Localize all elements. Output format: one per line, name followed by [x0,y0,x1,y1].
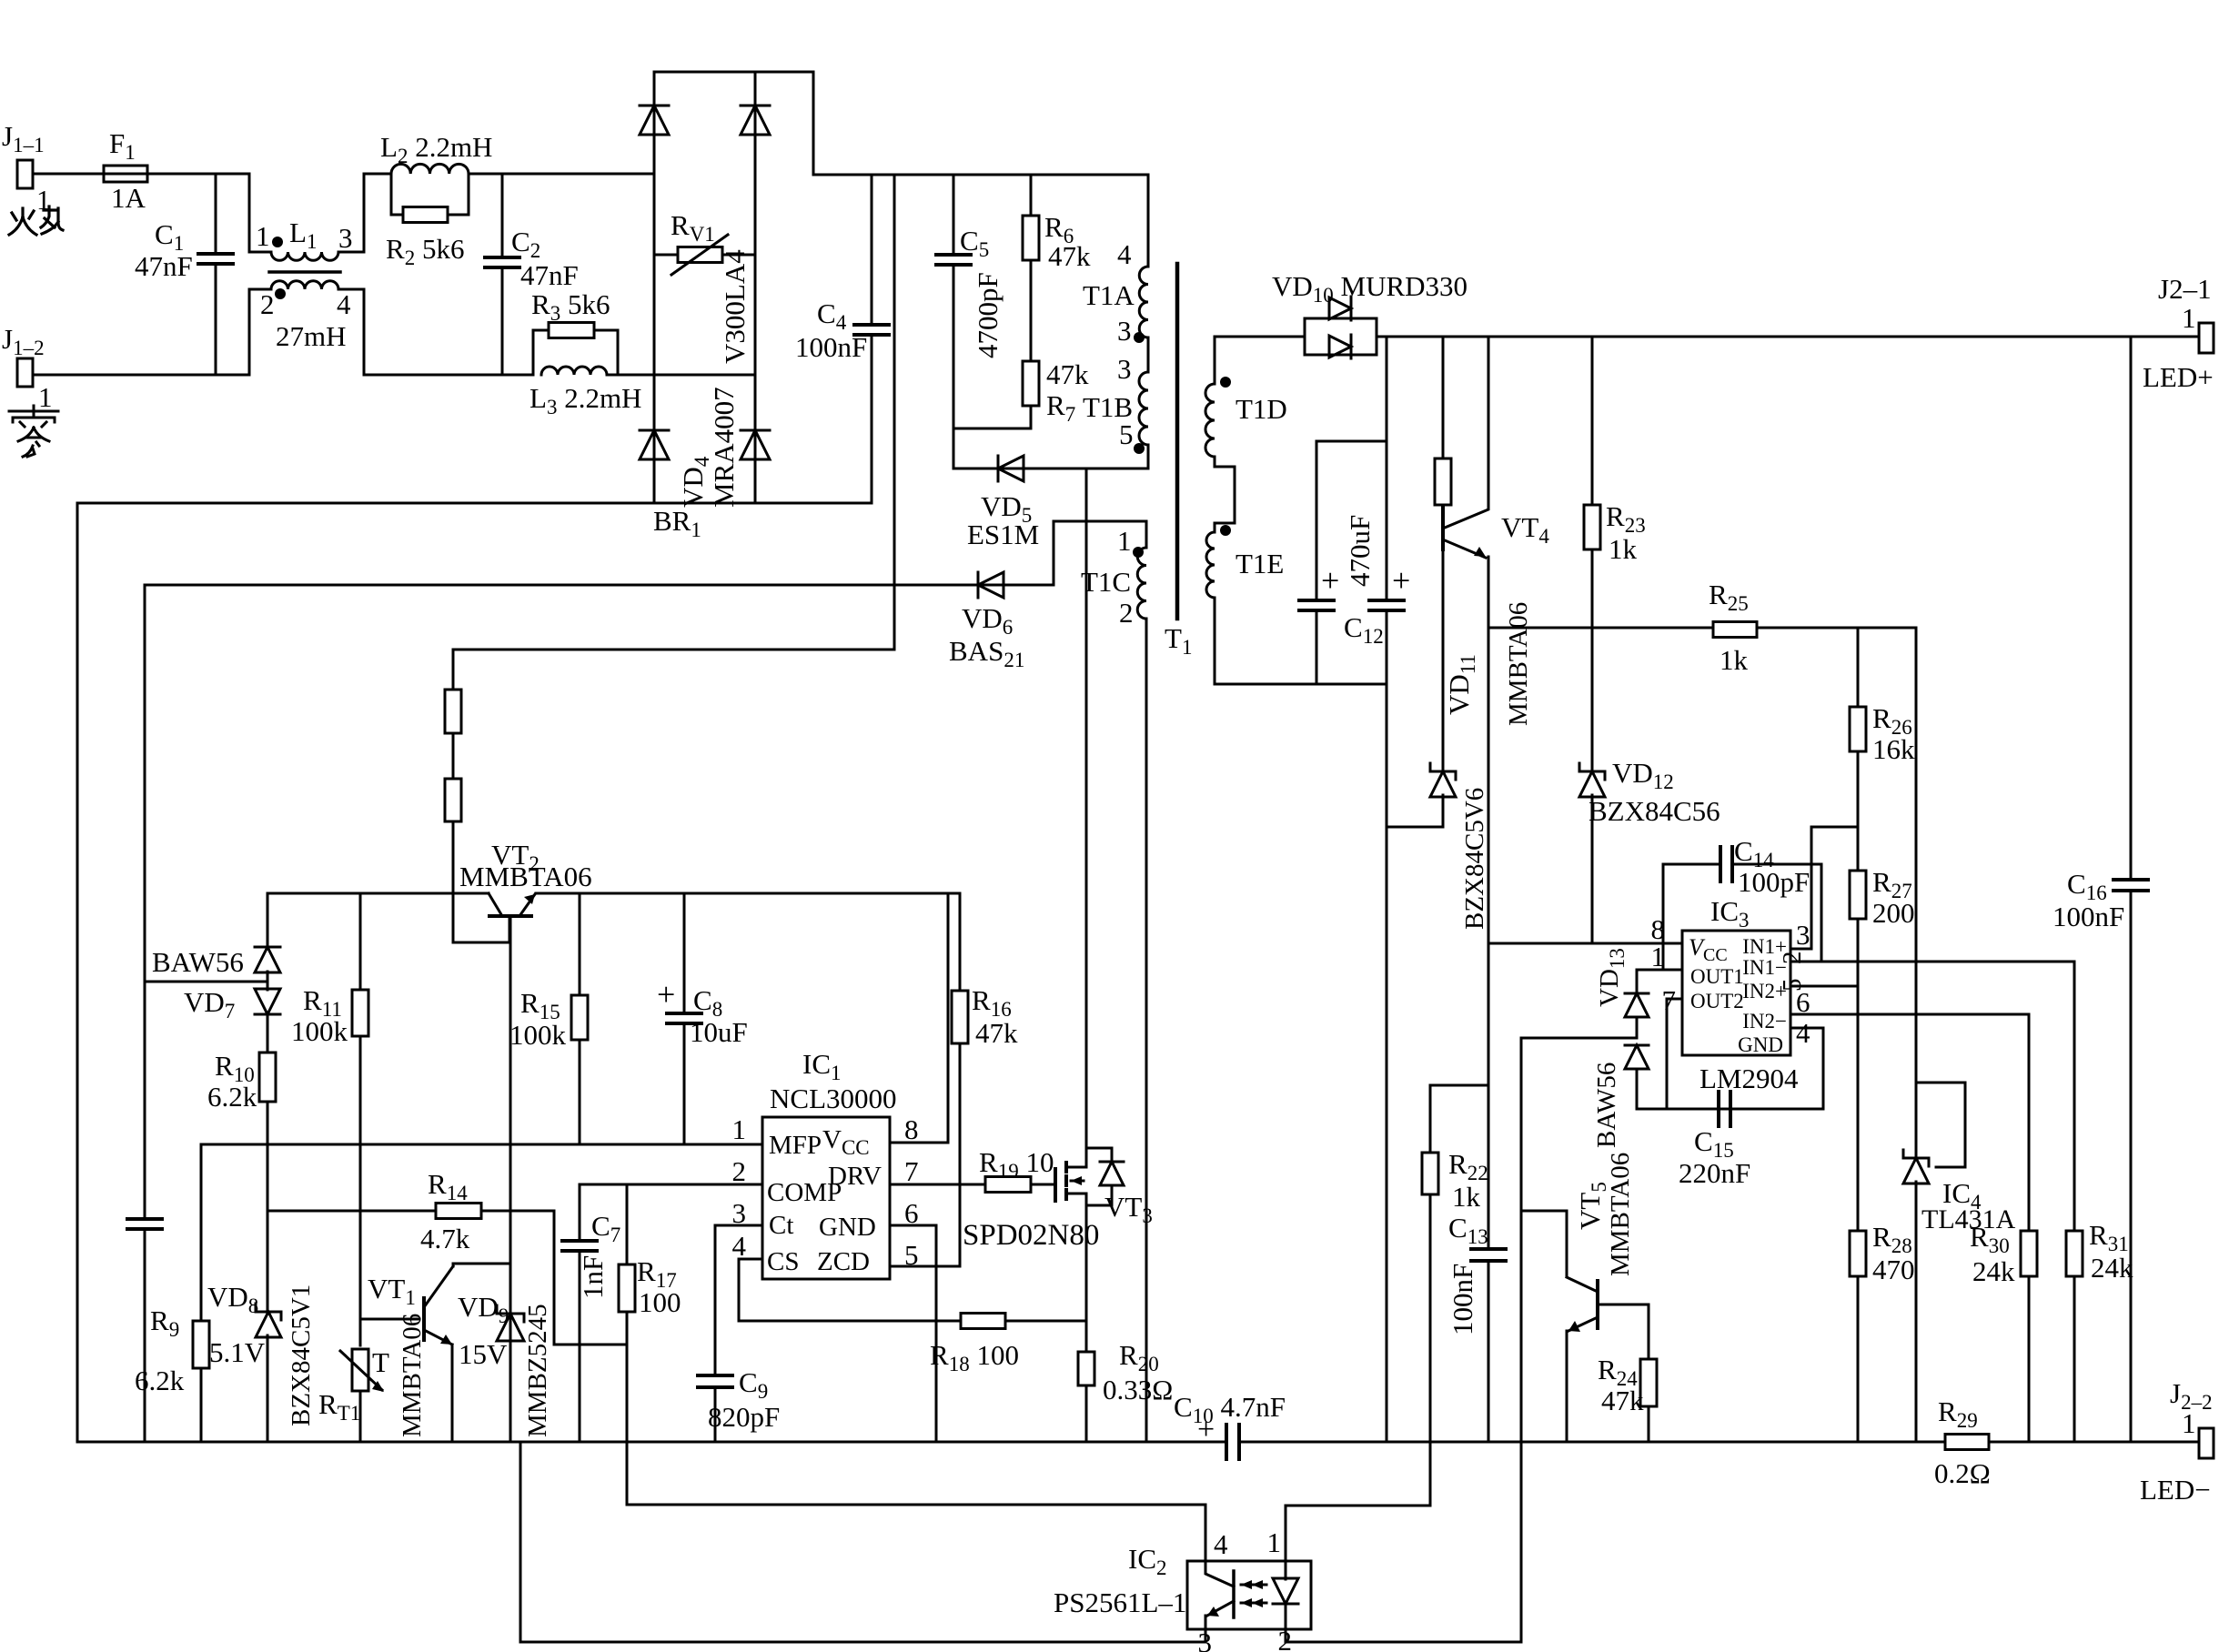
svg-text:MMBTA06: MMBTA06 [1504,602,1533,726]
connector J2-2 LED- [2199,1428,2214,1458]
svg-text:TL431A: TL431A [1921,1204,2016,1234]
svg-text:C10 4.7nF: C10 4.7nF [1174,1391,1286,1427]
resistor R27 200 [1850,871,1866,919]
label 火线 (live wire) [9,206,63,235]
VCC rail left segment [267,892,489,895]
inductor L2 2.2mH [391,164,469,174]
diode VD5 ES1M [953,468,1148,470]
svg-text:3: 3 [338,222,353,254]
svg-text:1: 1 [38,381,53,413]
diode BAW56 (with VD7) [267,893,269,948]
DC+ rail to transformer [813,174,1148,176]
svg-text:+: + [657,976,675,1012]
svg-text:T1E: T1E [1236,548,1284,579]
optocoupler IC2 PS2561L-1 [1187,1561,1311,1629]
svg-text:R3 5k6: R3 5k6 [531,288,610,325]
svg-text:T1A: T1A [1083,279,1135,311]
pin6 row to R30 [1790,1013,2029,1016]
IC2 pin 1 wire to secondary ground [1286,1442,1430,1561]
svg-text:4: 4 [732,1230,747,1262]
svg-text:100nF: 100nF [795,331,867,363]
resistor R30 24k [2028,1014,2031,1231]
svg-text:Ct: Ct [769,1211,793,1240]
varistor RV1 V300LA4 [654,254,678,257]
resistor R18 100 [961,1314,1005,1329]
svg-text:1k: 1k [1452,1181,1481,1213]
svg-text:R18 100: R18 100 [930,1339,1019,1375]
svg-text:T1D: T1D [1236,393,1287,425]
VCC rail right segment (VT2 emitter) [536,892,960,895]
Ct pin 3 wire and capacitor C9 820pF [715,1225,762,1375]
svg-text:47k: 47k [1046,358,1089,390]
fuse F1 1A [33,173,104,176]
VCC pin 8 wire [890,893,948,1143]
left vertical DC- down to primary ground bus [76,503,79,1442]
resistor R23 1k [1591,337,1594,505]
svg-text:4: 4 [337,288,351,320]
capacitor C8 10uF (electrolytic) [683,893,686,1013]
svg-text:1: 1 [256,220,270,252]
dual diode VD10 MURD330 [1305,318,1377,355]
transistor VT5 MMBTA06 [1521,1211,1567,1276]
svg-text:4: 4 [1117,238,1132,270]
transformer core T1 [1175,264,1180,619]
svg-text:1nF: 1nF [577,1255,609,1299]
transformer winding T1C [1145,521,1148,548]
resistor R29 0.2 ohm (current sense) [1945,1435,1989,1450]
svg-text:200: 200 [1872,897,1915,929]
svg-text:BZX84C5V1: BZX84C5V1 [287,1284,316,1426]
wire VD6 to T1C pin 1 [1054,521,1146,585]
resistor R25 1k [1713,622,1757,638]
svg-text:3: 3 [1796,919,1810,951]
svg-text:820pF: 820pF [708,1401,780,1433]
GND pin 4 wire [1637,1028,1823,1109]
resistor R3 5k6 (parallel with L3) [364,374,533,377]
resistor R17 100 [626,1184,629,1264]
connector J2-1 LED+ [2199,323,2214,353]
capacitor C5 4700pF [953,175,955,255]
svg-text:24k: 24k [2091,1252,2133,1284]
svg-text:GND: GND [1738,1033,1783,1056]
svg-text:47k: 47k [1048,240,1091,272]
COMP wire to IC1 pin 2 [580,1184,762,1186]
capacitor C2 47nF [501,174,504,257]
svg-text:1: 1 [1267,1526,1282,1558]
svg-text:MMBZ5245: MMBZ5245 [523,1304,552,1437]
resistor R14 4.7k [268,1210,436,1213]
bridge top rail to DC+ [654,72,813,175]
transistor VT2 MMBTA06 [489,893,502,916]
svg-text:15V: 15V [459,1338,508,1370]
svg-text:SPD02N80: SPD02N80 [963,1219,1099,1252]
VCC_sec drop to IC3 supply [1488,628,1490,943]
capacitor C10 4.7nF (Y-cap in ground) [1225,1425,1228,1459]
svg-text:470uF: 470uF [1344,515,1376,587]
svg-text:100k: 100k [509,1019,567,1051]
resistor R10 6.2k [267,1013,269,1053]
svg-text:T: T [372,1346,389,1378]
wire to IC3 pin 8 [1488,942,1681,945]
svg-text:5.1V: 5.1V [209,1336,266,1368]
secondary return wire [1215,598,1387,684]
svg-text:1: 1 [732,1113,747,1145]
diode VD6 BAS21 [145,584,1054,587]
transistor VT4 MMBTA06 [1441,508,1445,549]
svg-text:CC: CC [1703,945,1728,965]
feedback node down to TL431 [1915,628,1918,1158]
capacitor C7 1nF [579,1184,581,1241]
body diode of VT3 [1086,1148,1112,1161]
CS pin 4 wire [739,1259,961,1321]
resistor R22 1k [1429,1085,1432,1153]
svg-text:T1C: T1C [1081,566,1131,598]
svg-text:PS2561L–1: PS2561L–1 [1054,1587,1186,1618]
diode VD13 (dual BAW56) [1637,970,1682,993]
svg-text:1A: 1A [111,182,146,214]
svg-text:470: 470 [1872,1254,1915,1285]
svg-text:LED−: LED− [2140,1474,2211,1506]
pin2 row to R31 [1790,961,2074,963]
svg-text:NCL30000: NCL30000 [770,1083,897,1114]
resistor R31 24k [2073,962,2076,1231]
resistor R26 16k [1857,628,1860,707]
svg-text:100: 100 [639,1286,681,1318]
svg-text:10uF: 10uF [690,1016,748,1048]
inductor L3 2.2mH [541,367,607,375]
zener VD12 BZX84C56 [1591,628,1594,771]
svg-text:27mH: 27mH [276,320,347,352]
VCC_sec down to R22/C13 [1430,943,1488,1085]
svg-text:J2–1: J2–1 [2158,273,2212,305]
svg-text:+: + [1197,1413,1215,1446]
zener VD11 BZX84C5V6 [1442,795,1445,827]
svg-text:24k: 24k [1972,1255,2015,1287]
R14 right node down to R17 bottom [554,1211,627,1345]
wire C12 to VD11 [1387,826,1443,829]
bridge bottom rail DC- [77,502,872,505]
zener VD8 BZX84C5V1 5.1V [256,1311,281,1314]
svg-text:6.2k: 6.2k [135,1365,185,1396]
startup resistor (upper, unlabeled) [452,650,455,690]
svg-text:47k: 47k [975,1017,1018,1049]
svg-text:4: 4 [1796,1017,1810,1049]
capacitor C1 47nF [215,174,217,254]
svg-text:47nF: 47nF [520,259,579,291]
svg-text:47nF: 47nF [135,250,193,282]
svg-text:LED+: LED+ [2143,361,2214,393]
svg-text:5: 5 [1119,418,1134,450]
IC2 pin 3 wire to primary ground [520,1442,1205,1642]
connector J1-1 (live input) [17,160,33,188]
op-amp IC3 LM2904 [1682,931,1790,1055]
svg-text:0.2Ω: 0.2Ω [1934,1457,1991,1489]
MOSFET drain wire from VD5 node [1085,468,1088,1167]
resistor R9 6.2k [200,1144,203,1321]
capacitor C6 (unlabeled) on VD6 line [144,585,146,1219]
svg-text:1: 1 [1651,941,1666,972]
svg-text:MMBTA06: MMBTA06 [459,861,592,892]
common-mode choke L1 27mH [249,174,271,252]
svg-text:BAW56: BAW56 [1592,1063,1621,1148]
resistor R15 100k [579,893,581,995]
svg-text:1k: 1k [1720,644,1749,676]
resistor R6 47k [1030,175,1033,216]
svg-text:MMBTA06: MMBTA06 [398,1314,427,1437]
svg-text:2: 2 [732,1155,747,1187]
connector J1-2 (neutral input) [17,358,33,387]
secondary ground bus [1239,1441,1945,1444]
svg-text:LM2904: LM2904 [1699,1063,1799,1094]
svg-text:100pF: 100pF [1738,866,1810,898]
zener reference IC4 TL431A [1903,1157,1929,1160]
divider tap to IN1+ [1790,827,1858,949]
svg-text:GND: GND [819,1213,876,1242]
resistor R24 47k [1598,1304,1649,1359]
svg-text:2: 2 [260,288,275,320]
wire L2 to bridge [469,173,654,176]
MFP wire to IC1 pin 1 [201,1143,762,1146]
bias resistor for VT4 (unlabeled) [1442,337,1445,458]
svg-text:4.7k: 4.7k [420,1223,470,1254]
VT1 collector to VT2 base node [453,1264,510,1266]
svg-text:R2 5k6: R2 5k6 [386,233,464,269]
OUT2 pin 7 wire [1667,999,1682,1109]
LED inside IC2 [1285,1561,1287,1579]
svg-text:16k: 16k [1872,733,1915,765]
capacitor C15 220nF [1717,1092,1720,1126]
transistor VT1 MMBTA06 [360,1318,419,1321]
svg-text:BZX84C56: BZX84C56 [1589,795,1720,827]
svg-text:MFP: MFP [769,1131,822,1160]
svg-text:COMP: COMP [767,1178,842,1207]
svg-text:47k: 47k [1601,1385,1644,1416]
thermistor RT1 (T) [352,1349,368,1391]
winding T1D [1215,337,1305,384]
svg-text:1k: 1k [1609,533,1638,565]
svg-text:L3 2.2mH: L3 2.2mH [530,382,641,418]
svg-text:7: 7 [904,1155,919,1187]
svg-text:ZCD: ZCD [817,1247,870,1276]
capacitor C12 470uF (two electrolytics) [1316,440,1387,443]
resistor R28 470 [1857,986,1860,1231]
svg-text:V300LA4: V300LA4 [719,249,751,364]
wire fuse to C1/L1 [147,173,249,176]
svg-text:+: + [1321,562,1339,599]
svg-text:VD10 MURD330: VD10 MURD330 [1272,270,1468,307]
svg-text:IN2−: IN2− [1742,1010,1787,1032]
svg-text:100nF: 100nF [2052,901,2124,932]
diode BAW56 (second) [1625,1045,1649,1069]
feedback line to optocoupler [1521,1037,1637,1040]
startup resistor (lower, unlabeled) [452,733,455,779]
capacitor C4 100nF [871,175,873,325]
transformer winding T1A [1147,175,1150,267]
capacitor C16 100nF [2130,337,2133,880]
svg-text:CS: CS [767,1247,799,1276]
svg-text:6.2k: 6.2k [207,1081,257,1113]
svg-text:4: 4 [1214,1528,1228,1560]
primary ground bus [77,1441,1226,1444]
svg-text:L2 2.2mH: L2 2.2mH [380,131,492,167]
LED+ output rail [1377,336,2199,338]
VT4 emitter rail [1488,557,1916,628]
svg-text:3: 3 [1117,353,1132,385]
svg-text:ES1M: ES1M [967,519,1039,550]
svg-text:BZX84C5V6: BZX84C5V6 [1460,788,1489,930]
winding T1E [1206,532,1215,598]
MOSFET VT3 SPD02N80 [1054,1169,1057,1201]
resistor R19 10 (gate) [890,1184,985,1186]
svg-text:1: 1 [2182,1407,2196,1439]
svg-text:OUT2: OUT2 [1690,990,1744,1012]
IC2 pin 4 wire to primary ground [627,1442,1205,1561]
svg-text:OUT1: OUT1 [1690,965,1744,988]
transformer winding T1B [1147,337,1150,372]
resistor R7 47k [1030,260,1033,361]
svg-text:0.33Ω: 0.33Ω [1103,1374,1173,1405]
diode VD7 [267,972,269,990]
resistor R2 5k6 (parallel with L2) [391,174,403,215]
svg-text:MRA4007: MRA4007 [708,387,740,508]
bridge rectifier BR1 (VD4 MRA4007) left column [653,72,656,503]
startup feed wire from DC+ [453,175,894,650]
svg-text:1: 1 [1117,525,1132,557]
secondary ground drop [1386,684,1388,1442]
svg-text:100k: 100k [291,1015,348,1047]
capacitor C14 100pF [1663,864,1720,970]
bridge rectifier right column [754,72,757,503]
light arrows inside IC2 [1241,1584,1266,1587]
wire J1-2 to bridge [33,374,249,377]
resistor R16 47k (ZCD) [959,893,962,991]
capacitor C13 100nF [1488,1085,1490,1249]
GND pin 6 wire to ground bus [890,1225,936,1442]
svg-text:BAW56: BAW56 [152,946,244,978]
svg-text:4700pF: 4700pF [972,272,1004,358]
svg-text:3: 3 [1117,315,1132,347]
svg-text:+: + [1392,562,1410,599]
resistor R11 100k [359,893,362,990]
svg-text:2: 2 [1119,597,1134,629]
svg-text:220nF: 220nF [1679,1157,1750,1189]
zener VD9 MMBZ5245 15V [497,1313,524,1315]
label 零线 (neutral wire) [9,406,58,457]
svg-text:8: 8 [904,1113,919,1145]
jog between T1D and T1E [1215,457,1235,532]
wire BAW56/VD7 junction to left rail [145,981,267,983]
IC IC1 NCL30000 [762,1117,890,1279]
phototransistor inside IC2 [1232,1571,1236,1617]
resistor R20 0.33 ohm [1078,1352,1094,1385]
svg-text:100nF: 100nF [1447,1264,1478,1335]
svg-text:MMBTA06: MMBTA06 [1606,1153,1635,1276]
svg-text:1: 1 [2182,302,2196,334]
pin5 row to divider [1790,985,1858,988]
